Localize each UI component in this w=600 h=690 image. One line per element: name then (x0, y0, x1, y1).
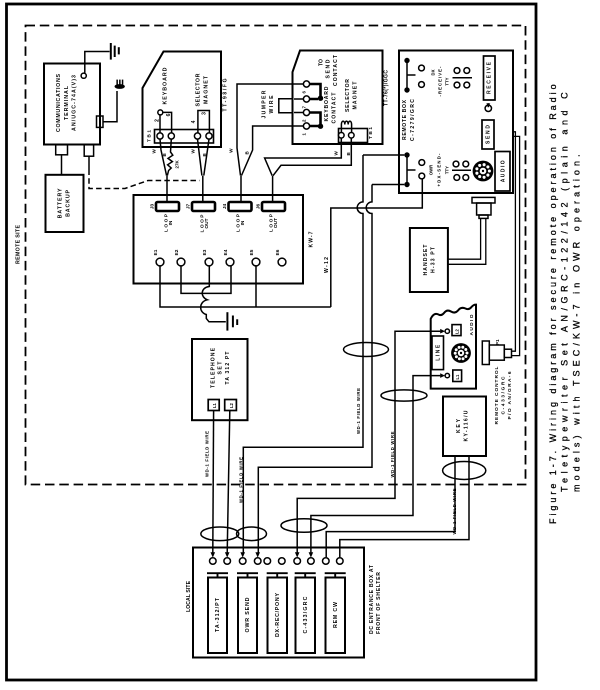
svg-text:AUDIO: AUDIO (501, 160, 507, 182)
label KEYBOARD (162, 67, 228, 111)
svg-text:SELECTOR: SELECTOR (345, 79, 351, 112)
audio cable from remote box to P1 (double line) (512, 132, 520, 356)
L2 terminal circle (445, 329, 449, 333)
junction dot 6-7 (318, 96, 323, 101)
key KY-116/U box (443, 397, 486, 457)
svg-text:AN/UGC-74A(V)3: AN/UGC-74A(V)3 (72, 75, 78, 131)
audio connector on remote control (451, 343, 471, 363)
telephone field wire L1 (212, 411, 215, 553)
cable lacing ellipse on OWR pair (344, 343, 389, 357)
ground bus wire E1-E5 to W-12 (160, 266, 331, 307)
svg-text:C-433/GRC: C-433/GRC (303, 596, 309, 633)
svg-text:E4: E4 (223, 249, 229, 255)
svg-text:IN: IN (168, 220, 174, 225)
svg-text:KW-7: KW-7 (308, 231, 314, 247)
module T-bar antennas (207, 573, 346, 577)
svg-text:E6: E6 (275, 249, 281, 255)
svg-text:L1: L1 (455, 374, 460, 380)
teletypewriter TT-76(*)/GGC outline (293, 51, 383, 145)
wire stem into J4 (240, 176, 242, 203)
svg-text:Teletypewriter Set AN/GRC-122/: Teletypewriter Set AN/GRC-122/142 (plain… (560, 92, 570, 492)
TT-76 terminal 6 (303, 81, 309, 87)
svg-text:+DX-SEND-: +DX-SEND- (437, 153, 442, 187)
wire from stub to plug symbol (103, 91, 117, 122)
wire B from TB1-6 with 27K resistor to J3 (167, 139, 173, 176)
crypto unit KW-7 box (134, 195, 304, 284)
svg-text:OUT: OUT (273, 218, 279, 228)
svg-text:TT-98/FG: TT-98/FG (223, 78, 229, 111)
connector stub on right of comm terminal (97, 116, 104, 127)
arrow down (295, 552, 300, 557)
svg-text:WD-1 FIELD WIRE: WD-1 FIELD WIRE (238, 457, 243, 503)
svg-text:C-433/GRC: C-433/GRC (501, 376, 507, 415)
wire B from TB1-3 to J7 (204, 139, 209, 175)
rotary switch symbol (485, 105, 491, 111)
key field wire B to REM CW (340, 456, 469, 557)
svg-text:P1: P1 (495, 339, 501, 345)
svg-text:DX-REC/PONY: DX-REC/PONY (275, 593, 281, 637)
L1 terminal box (208, 400, 219, 411)
terminal TB1-2 (157, 133, 163, 139)
svg-text:E3: E3 (202, 249, 208, 255)
wire OWR post to field wire (top) (363, 154, 404, 156)
selector magnet coil (341, 121, 351, 132)
svg-text:J7: J7 (186, 204, 192, 210)
terminal number labels 2 6 4 3 (155, 112, 208, 124)
svg-text:SEND: SEND (326, 59, 332, 78)
labels J3 J7 J4 J6 (149, 204, 281, 256)
svg-text:COMMUNICATIONS: COMMUNICATIONS (56, 74, 62, 132)
L2 label box (452, 325, 461, 336)
strap wire terminal 2 to 6 (160, 112, 172, 132)
arrow into L2 (440, 329, 445, 334)
TB1-76 terminal W (339, 133, 345, 139)
svg-text:OWR: OWR (429, 164, 434, 175)
wire stem into J6 (272, 176, 274, 203)
svg-text:4: 4 (191, 120, 197, 123)
wire W from TT-76 terminal 6 to J4 (237, 84, 303, 176)
svg-text:WD-1 FIELD WIRE: WD-1 FIELD WIRE (204, 431, 209, 477)
terminal strip TB1 of TT-98 (155, 130, 214, 144)
terminal number labels 6 7 2 1 (301, 91, 306, 136)
arrow down (240, 552, 245, 557)
LINE label box (432, 336, 444, 370)
svg-text:SELECTOR: SELECTOR (196, 73, 202, 106)
remote box C-7279/GRC (399, 51, 513, 194)
connector J3 LOOP IN (156, 202, 179, 211)
communications terminal AN/UGC-74A(V)3 box (44, 64, 100, 145)
key field wire A to REM CW (326, 456, 455, 557)
wire between posts with stub (407, 155, 416, 185)
svg-text:BACKUP: BACKUP (66, 189, 72, 216)
svg-text:TTY: TTY (445, 166, 450, 174)
svg-text:WIRE: WIRE (269, 95, 275, 114)
svg-text:KY-116/U: KY-116/U (464, 410, 470, 441)
svg-text:RECEIVE: RECEIVE (487, 61, 493, 94)
wire W from TT-76 TB1 to J6 (265, 138, 342, 176)
svg-text:OUT: OUT (204, 218, 210, 228)
plug P1 (482, 341, 489, 365)
cable lacing ellipse on RC pair (381, 390, 427, 401)
OWR send binding posts (dots) (404, 152, 409, 157)
svg-text:CONTACT: CONTACT (333, 54, 339, 86)
strap wire terminal 4 to 3 (198, 111, 210, 133)
L1 label box (453, 370, 462, 382)
wire W from TB1-4 to J7 (198, 139, 202, 175)
label COMMUNICATIONS TERMINAL AN/UGC-74A(V)3 (56, 74, 77, 132)
svg-text:H-33 PT: H-33 PT (431, 246, 437, 273)
local site DC entrance box (193, 548, 364, 658)
svg-text:TT-76(*)/GGC: TT-76(*)/GGC (384, 70, 390, 106)
L1 terminal circle (445, 373, 449, 377)
entrance terminals row (210, 558, 344, 565)
OWR terminals (419, 160, 425, 166)
wire stem into J3 (166, 176, 168, 203)
svg-text:REM CW: REM CW (333, 602, 339, 628)
svg-text:LOCAL SITE: LOCAL SITE (186, 580, 192, 612)
svg-text:IN: IN (240, 220, 246, 225)
label REMOTE BOX C-7279/GRC (402, 99, 416, 141)
telephone field wire L2 (227, 411, 230, 553)
svg-text:DX: DX (431, 69, 436, 75)
svg-text:-RECEIVE-: -RECEIVE- (438, 66, 443, 97)
terminal E4 (226, 258, 234, 266)
wire B from TT-76 TB1 to J6 (273, 138, 351, 176)
svg-text:WD-1 FIELD WIRE: WD-1 FIELD WIRE (452, 488, 457, 534)
TB1-76 terminal B (349, 133, 355, 139)
svg-text:AUDIO: AUDIO (469, 314, 475, 335)
strap circle above terminal 2 (158, 110, 163, 115)
svg-text:SEND: SEND (486, 125, 492, 144)
terminal E3 (205, 258, 213, 266)
connector J6 LOOP OUT (262, 202, 285, 211)
thick strap bars 6-7 (310, 84, 321, 126)
svg-text:KEYBOARD: KEYBOARD (162, 67, 168, 104)
terminal E2 (177, 258, 185, 266)
remote site dashed boundary (26, 26, 526, 485)
svg-text:E5: E5 (249, 249, 255, 255)
wire B from TT-76 terminal 1 to J4 (242, 126, 304, 176)
svg-text:TB1: TB1 (368, 127, 374, 139)
terminal TB1-4 (194, 133, 200, 139)
svg-text:TTY: TTY (445, 77, 450, 85)
divider line (453, 77, 473, 79)
svg-text:TB1: TB1 (147, 130, 153, 142)
RECEIVE button (484, 56, 496, 100)
plug / chassis ground symbol (115, 80, 125, 89)
svg-text:SET: SET (218, 361, 224, 375)
svg-text:2: 2 (155, 119, 161, 122)
arrow down (309, 552, 314, 557)
thick strap bars 2-1 (310, 113, 321, 127)
labels TO SEND CONTACT (319, 54, 390, 123)
svg-text:REMOTE BOX: REMOTE BOX (402, 99, 408, 140)
divider line (452, 169, 471, 171)
wire OWR post to field wire (bottom) (372, 184, 404, 186)
remote control field wire B to C-433/GRC (311, 376, 441, 553)
svg-text:LINE: LINE (436, 344, 442, 361)
DX receive terminals (419, 65, 425, 71)
wire stem into J7 (202, 176, 204, 203)
svg-text:WD-1 FIELD WIRE: WD-1 FIELD WIRE (390, 431, 395, 477)
terminal E6 (278, 258, 286, 266)
cable W-12 from ground bus to remote box (331, 179, 423, 307)
TT-76 terminal 2 (303, 109, 309, 115)
wire from terminal to ground (85, 52, 110, 74)
svg-text:E1: E1 (153, 249, 159, 255)
AUDIO label box (495, 152, 510, 192)
svg-text:J6: J6 (256, 204, 262, 210)
svg-text:TERMINAL: TERMINAL (64, 85, 70, 120)
arrow down (255, 552, 260, 557)
TT-76 terminal 1 (303, 123, 309, 129)
comm terminal foot 1 (56, 145, 68, 155)
terminal circle on comm terminal (81, 73, 86, 78)
send TTY jack circles (453, 161, 459, 167)
terminal strip TB1 of TT-76 selector magnet (339, 129, 368, 143)
dashed wire from comm terminal to loop circuit (89, 170, 200, 189)
wire foot2 down (88, 156, 90, 169)
labels DX -RECEIVE- TTY (431, 66, 450, 97)
svg-text:TELEPHONE: TELEPHONE (210, 347, 216, 388)
terminal E5 (252, 258, 260, 266)
terminal E1 (156, 258, 164, 266)
wire between posts with stub (407, 61, 416, 91)
terminal TB1-6 (168, 133, 174, 139)
svg-text:L2: L2 (229, 402, 234, 408)
svg-text:J3: J3 (149, 204, 155, 210)
wire W from TB1-2 to J3 (160, 139, 167, 176)
module TA-312/PT (208, 578, 345, 654)
svg-text:WD-1 FIELD WIRE: WD-1 FIELD WIRE (356, 388, 361, 434)
junction dot 2-1 (318, 124, 323, 129)
wire foot1 to battery backup (61, 155, 63, 175)
svg-text:27K: 27K (174, 159, 179, 168)
svg-text:CONTACT: CONTACT (332, 92, 338, 124)
svg-text:BATTERY: BATTERY (58, 188, 64, 218)
handset H-33 PT box (410, 228, 448, 292)
connector J4 LOOP IN (229, 202, 252, 211)
svg-text:TA-312/PT: TA-312/PT (215, 597, 221, 632)
wire E3 to ground with hops (201, 266, 226, 322)
ground symbol below KW-7 (227, 312, 237, 330)
TT-76 terminal 7 (303, 96, 309, 102)
SEND button (482, 120, 494, 149)
connector J7 LOOP OUT (192, 202, 215, 211)
svg-text:L1: L1 (212, 402, 217, 408)
arrow down (225, 552, 230, 557)
label JUMPER WIRE (262, 90, 276, 118)
module labels (215, 593, 339, 637)
svg-text:OWR SEND: OWR SEND (245, 597, 251, 632)
svg-text:E2: E2 (174, 249, 180, 255)
AUDIO multipin connector (473, 161, 494, 182)
L2 terminal box (225, 400, 237, 411)
label TELEPHONE SET TA 312 PT (210, 347, 230, 388)
labels REMOTE CONTROL C-433/GRC P/O AN/GRA-6 (494, 366, 513, 424)
arrow into L1 (440, 373, 445, 378)
svg-text:W-12: W-12 (324, 257, 330, 273)
arrow down (211, 552, 216, 557)
svg-text:TO: TO (319, 59, 325, 66)
OWR field wire top (with hop over W-12) to OWR SEND (243, 155, 363, 553)
remote control field wire A to C-433/GRC (297, 331, 440, 553)
label DC ENTRANCE BOX AT FRONT OF SHELTER (369, 564, 382, 634)
svg-text:C-7279/GRC: C-7279/GRC (410, 99, 416, 141)
ground (earth) symbol top-left (111, 43, 119, 60)
label KEY KY-116/U (456, 410, 470, 441)
svg-text:L2: L2 (454, 328, 459, 334)
terminal TB1-3 (206, 133, 212, 139)
cable lacing ellipse telephone pair (201, 527, 239, 541)
label BATTERY BACKUP (58, 188, 72, 218)
jumper wire loop on terminals 7,2 (279, 99, 304, 113)
svg-text:DC ENTRANCE BOX AT: DC ENTRANCE BOX AT (369, 564, 375, 634)
svg-text:FRONT OF SHELTER: FRONT OF SHELTER (376, 572, 382, 634)
cable lacing ellipse below key (443, 462, 486, 480)
svg-text:HANDSET: HANDSET (423, 244, 429, 276)
label HANDSET H-33 PT (423, 244, 437, 276)
battery backup box (46, 175, 84, 232)
handset plug into remote box (472, 197, 495, 203)
svg-text:REMOTE CONTROL: REMOTE CONTROL (494, 366, 500, 424)
svg-text:KEY: KEY (456, 418, 462, 433)
handset cord (double line) (448, 218, 486, 264)
OWR field wire bottom (with hop over W-12) to OWR SEND (258, 185, 372, 553)
comm terminal foot 2 (84, 145, 93, 156)
DX receive binding posts (dots) (404, 58, 409, 63)
telephone set TA-312 PT box (192, 339, 248, 420)
receive TTY jack circles (454, 68, 460, 74)
svg-text:J4: J4 (222, 204, 228, 210)
svg-text:KEYBOARD: KEYBOARD (324, 86, 330, 121)
svg-text:6: 6 (166, 113, 172, 116)
strap wire E2 to E4 (181, 266, 231, 294)
teletypewriter TT-98/FG outline (keyboard unit) (143, 52, 222, 148)
svg-text:3: 3 (202, 112, 208, 115)
labels OWR +DX-SEND- TTY (429, 153, 450, 187)
svg-text:REMOTE SITE: REMOTE SITE (16, 225, 22, 264)
svg-text:JUMPER: JUMPER (262, 90, 268, 118)
cable lacing ellipse OWR SEND pair (237, 527, 267, 541)
cable lacing ellipse on C-433 pair (281, 519, 327, 532)
remote control C-433/GRC box with torn top edge (431, 305, 476, 389)
